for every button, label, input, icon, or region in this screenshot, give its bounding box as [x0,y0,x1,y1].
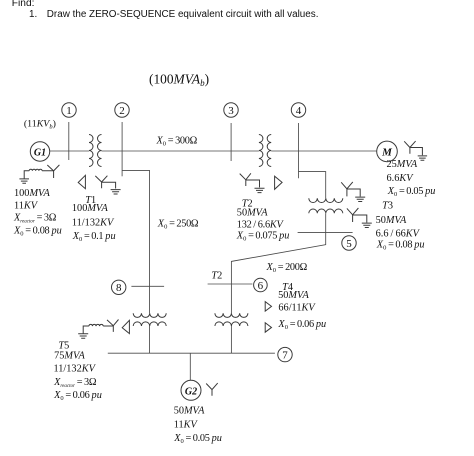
svg-text:5: 5 [346,238,352,250]
T5 delta symbol [122,320,129,333]
T3 upper wye symbol [341,182,360,197]
bus circle 2 [115,103,129,117]
T1 delta symbol [78,175,85,188]
svg-text:100MVA: 100MVA [14,188,51,199]
bus 6 bar [208,283,253,285]
T1 wye symbol [95,176,115,189]
bus circle 6 [254,278,268,292]
svg-text:11/132KV: 11/132KV [54,364,97,375]
svg-text:11KV: 11KV [14,201,39,212]
svg-text:1: 1 [66,105,72,117]
transformer T4 winding top [215,313,248,317]
bus circle 1 [62,103,76,117]
T3 upper ground [355,197,365,201]
bus 2 tick [121,122,123,176]
wire T3 lower lead to bus5 [325,213,327,232]
transformer T2 winding right [267,135,271,167]
generator G1 [30,142,49,161]
wire main rail segment T2 to M [271,150,377,152]
svg-text:Xreactor = 3Ω: Xreactor = 3Ω [53,377,97,389]
svg-text:25MVA: 25MVA [387,159,418,170]
svg-text:11/132KV: 11/132KV [72,218,115,229]
T5 neutral ground [78,334,88,338]
svg-text:50MVA: 50MVA [376,215,407,226]
svg-text:X0 = 200Ω: X0 = 200Ω [266,262,308,274]
svg-text:T3: T3 [382,200,393,211]
svg-text:M: M [381,147,393,159]
svg-text:Find:: Find: [12,0,35,9]
transformer T5 winding top [133,313,166,317]
bus circle 5 [342,236,356,250]
bus circle 3 [224,103,238,117]
svg-text:4: 4 [296,105,302,117]
M neutral ground [418,156,427,160]
T4 delta symbol lower [265,323,271,333]
bus circle 4 [291,103,305,117]
wire line X0=200 diagonal bus5 to bus6 leg [231,232,325,313]
wire main rail segment T1 to T2 [102,150,259,152]
svg-text:Xreactor = 3Ω: Xreactor = 3Ω [13,213,57,225]
G1 neutral wire and reactor [24,169,53,179]
T3 lower ground [362,223,372,227]
T2 ground [255,188,265,192]
svg-text:50MVA: 50MVA [278,290,309,301]
transformer T1 winding left [89,135,93,167]
svg-text:75MVA: 75MVA [54,350,85,361]
svg-text:8: 8 [116,282,122,294]
svg-text:100MVA: 100MVA [72,203,109,214]
T5 neutral wire and reactor [83,324,113,333]
bus 8 bar [131,285,164,287]
wire G2 lead [189,353,191,380]
transformer T5 winding bottom [133,322,166,326]
svg-text:50MVA: 50MVA [174,405,205,416]
T1 ground [111,190,121,194]
bus circle 7 [278,347,292,361]
bus 1 tick [68,122,70,160]
wire T4 lower lead to bottom bus [230,326,232,353]
svg-text:T2: T2 [211,271,222,282]
T5 wye symbol [107,320,119,332]
svg-text:132 / 6.6KV: 132 / 6.6KV [237,219,285,230]
svg-text:11KV: 11KV [174,420,199,431]
bus 4 tick [298,123,300,178]
wire T5 lower lead to bottom bus [149,326,151,353]
G1 wye symbol [47,165,59,178]
transformer T3 winding top [309,198,343,202]
T2 wye symbol [240,173,260,187]
svg-text:1.Draw the ZERO-SEQUENCE equiv: 1.Draw the ZERO-SEQUENCE equivalent circ… [29,9,318,20]
T4 delta symbol upper [265,302,271,312]
svg-text:X0 = 0.1 pu: X0 = 0.1 pu [72,231,116,243]
svg-text:6: 6 [258,280,264,292]
svg-text:X0 = 300Ω: X0 = 300Ω [156,135,198,147]
svg-text:6.6KV: 6.6KV [387,173,415,184]
bus 5 bar [298,231,353,233]
bus circle 8 [112,280,126,294]
bottom bus bar [108,352,275,354]
svg-text:2: 2 [119,105,125,117]
svg-text:6.6 / 66KV: 6.6 / 66KV [376,228,421,239]
generator G2 [181,380,201,400]
bus 3 tick [230,123,232,161]
svg-text:(100MVAb): (100MVAb) [149,72,209,89]
wire main rail segment G1 to T1 [50,150,89,152]
wire T3 branch from bus4 [299,172,326,199]
svg-text:3: 3 [228,105,234,117]
G2 wye symbol [206,383,218,396]
T2 delta symbol [275,176,283,189]
svg-text:66/11KV: 66/11KV [278,302,316,313]
M neutral wye symbol [404,141,422,155]
transformer T3 winding bottom [309,209,343,213]
transformer T2 winding left [259,135,263,167]
svg-text:G1: G1 [34,147,46,158]
wire line X0=250 from bus2 down [122,170,149,313]
transformer T4 winding bottom [215,322,248,326]
motor M [377,141,398,162]
T3 lower wye symbol [347,208,367,223]
svg-text:G2: G2 [185,386,197,397]
svg-text:X0 = 250Ω: X0 = 250Ω [157,219,199,231]
transformer T1 winding right [98,135,102,167]
svg-text:7: 7 [282,350,288,362]
svg-text:50MVA: 50MVA [237,207,268,218]
G1 neutral ground [19,179,29,183]
